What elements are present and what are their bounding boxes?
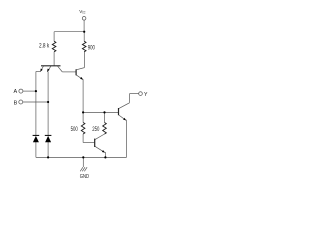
svg-text:2.8 k: 2.8 k [39, 44, 50, 50]
svg-text:B: B [14, 100, 18, 106]
svg-text:CC: CC [82, 11, 86, 15]
svg-text:250: 250 [92, 127, 100, 133]
svg-text:900: 900 [88, 45, 96, 51]
svg-text:500: 500 [71, 127, 79, 133]
svg-text:A: A [14, 89, 18, 95]
svg-text:GND: GND [80, 174, 89, 180]
svg-text:Y: Y [144, 92, 148, 98]
